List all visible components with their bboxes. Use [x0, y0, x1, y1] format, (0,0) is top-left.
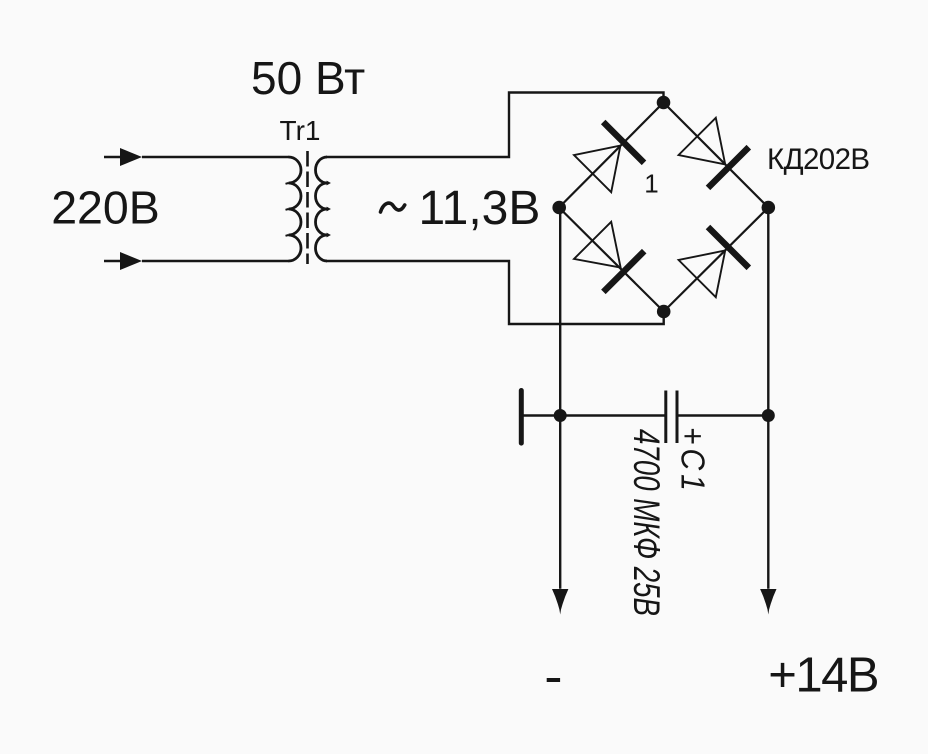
svg-text:+С1: +С1 [674, 427, 712, 495]
svg-text:4700 МКФ 25В: 4700 МКФ 25В [626, 429, 668, 616]
svg-text:220В: 220В [51, 181, 160, 233]
svg-text:11,3В: 11,3В [419, 182, 541, 235]
svg-text:Tr1: Tr1 [280, 115, 321, 146]
svg-text:50 Вт: 50 Вт [251, 52, 365, 104]
svg-text:1: 1 [644, 169, 658, 199]
svg-text:КД202В: КД202В [767, 143, 869, 176]
svg-text:+14В: +14В [768, 649, 878, 703]
